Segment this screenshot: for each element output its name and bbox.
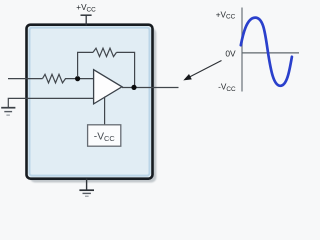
- resistor R_in: [43, 74, 76, 83]
- input wire: [8, 78, 43, 80]
- svg-text:-VCC: -VCC: [94, 131, 116, 143]
- -VCC label box: [88, 125, 121, 146]
- ground (left, non-inverting input): [1, 108, 15, 115]
- wire (R_in to op-amp inverting input): [75, 78, 94, 80]
- amplifier block: [27, 25, 157, 183]
- op-amp U1: [94, 70, 122, 104]
- wire (negative supply to -VCC): [104, 97, 106, 125]
- output wire: [122, 87, 179, 89]
- annotation arrow (graph to output wire): [183, 61, 221, 81]
- resistor R_f (feedback): [93, 48, 117, 56]
- ground (bottom of block): [79, 179, 94, 197]
- svg-text:+VCC: +VCC: [76, 3, 96, 13]
- node: output junction: [131, 85, 136, 90]
- wire (input node up to feedback resistor): [78, 52, 93, 77]
- svg-text:0V: 0V: [225, 48, 236, 58]
- waveform axes: [242, 8, 299, 92]
- wire (feedback resistor to output node): [117, 52, 135, 86]
- +VCC supply symbol: [81, 15, 92, 25]
- sine wave output: [241, 18, 292, 86]
- svg-text:+VCC: +VCC: [216, 10, 236, 20]
- node: inverting input junction: [75, 76, 80, 81]
- non-inverting input wire: [8, 98, 93, 107]
- svg-text:-VCC: -VCC: [218, 82, 236, 92]
